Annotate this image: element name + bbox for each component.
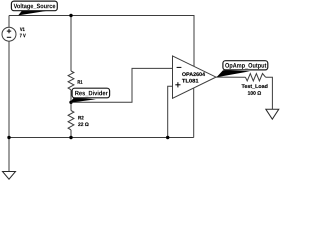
wire noninverting stub [168, 86, 173, 137]
wire V- supply riser [193, 88, 195, 138]
label TL081 [182, 79, 198, 83]
wire node to inverting input [71, 68, 172, 102]
label R1 [78, 80, 83, 83]
junction R2 bottom [69, 136, 72, 139]
callout wedge Res_Divider [70, 98, 96, 103]
wire V1 bottom to ground [8, 41, 10, 171]
resistor R1 [68, 71, 74, 90]
label 7 V [20, 34, 26, 37]
label Test_Load [242, 84, 268, 88]
callout Voltage_Source [11, 1, 57, 11]
junction bottom left [7, 136, 10, 139]
wire top rail [9, 16, 194, 67]
label 22 ohm [78, 123, 88, 126]
callout OpAmp_Output [223, 61, 268, 70]
node Res_Divider junction [69, 101, 72, 104]
wire load to ground [266, 77, 273, 109]
resistor Test_Load [245, 74, 265, 81]
ground left [3, 172, 16, 180]
label V1 [20, 28, 25, 31]
ground right [266, 109, 279, 119]
wire V1 top [8, 16, 10, 28]
wire R2 bottom [70, 130, 72, 138]
callout Res_Divider [72, 88, 110, 98]
op-amp U1 [173, 56, 217, 98]
junction noninverting ground [166, 136, 169, 139]
wire divider branch [70, 16, 72, 72]
label 100 ohm [248, 91, 261, 95]
callout wedge Voltage_Source [18, 10, 46, 15]
wire bottom rail [9, 137, 194, 139]
label OPA2604 [182, 72, 205, 76]
label R2 [78, 116, 83, 119]
wire op-amp output [216, 76, 245, 78]
junction top rail [69, 14, 72, 17]
wire R1-R2 [70, 90, 72, 111]
callout wedge OpAmp_Output [217, 70, 251, 77]
resistor R2 [68, 111, 74, 130]
voltage source V1 [2, 27, 16, 41]
